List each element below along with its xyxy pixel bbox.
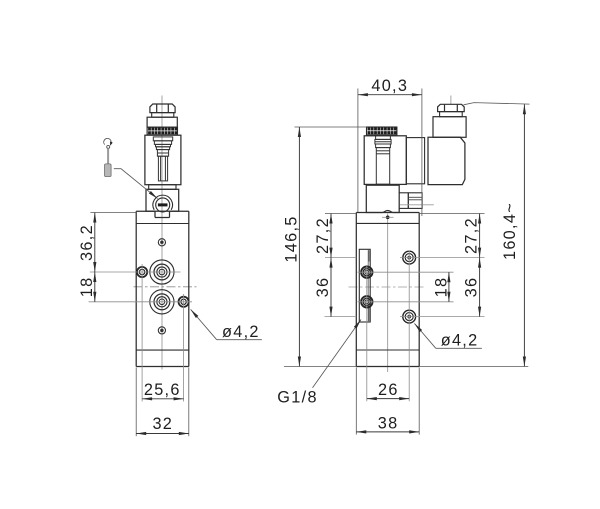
- svg-text:36: 36: [463, 277, 481, 298]
- valve flange top edge with notch: [136, 211, 189, 217]
- override housing side view: [366, 185, 399, 212]
- dashed horizontal centerline right view: [349, 286, 427, 288]
- svg-text:36,2: 36,2: [78, 224, 96, 261]
- pilot cartridge body: [408, 193, 422, 209]
- svg-text:25,6: 25,6: [144, 381, 181, 399]
- dimension 18: [94, 272, 96, 302]
- dimension 40,3: [358, 94, 422, 96]
- dimension 27,2 left: [330, 214, 332, 258]
- centerline vertical right view: [387, 214, 389, 373]
- override screw outer circle (top arc): [153, 195, 173, 210]
- extension lines for 38: [355, 368, 357, 435]
- knurled ring side view: [367, 127, 397, 135]
- top pilot hole: [158, 239, 165, 246]
- dimension 38: [356, 431, 419, 433]
- dimension 40,3 extension lines: [357, 89, 359, 213]
- leader from screwdriver to override screw: [114, 169, 158, 199]
- top extension line row for 27,2 dims: [325, 213, 356, 215]
- sub-base top line right view: [356, 349, 419, 351]
- svg-text:40,3: 40,3: [371, 77, 408, 95]
- solenoid stem side view: [375, 135, 391, 184]
- extension lines for 26: [366, 265, 368, 401]
- G1/8 threaded boss: [359, 249, 370, 322]
- armature stepped stack: [153, 137, 172, 181]
- dimension 25,6: [142, 398, 184, 400]
- adapter plate between solenoid and override housing: [149, 185, 176, 190]
- extension line top of knurl for 146,5: [295, 126, 367, 128]
- pilot cartridge neck: [399, 193, 408, 209]
- override screw inner circle: [156, 198, 170, 212]
- svg-text:160,4~: 160,4~: [501, 202, 519, 260]
- leader for hole dia 4,2 left view: [191, 309, 217, 339]
- coil adapter block: [406, 138, 424, 184]
- screwdriver icon: pivot circle: [107, 145, 110, 148]
- valve body outline right view: [356, 213, 419, 367]
- screwdriver icon: shaft: [107, 148, 109, 164]
- coil body side view: [364, 136, 406, 185]
- svg-text:18: 18: [432, 277, 450, 298]
- stem neck under hex nut: [152, 113, 174, 118]
- solenoid body left view: [145, 135, 181, 185]
- screwdriver icon: rotation arc: [104, 138, 111, 144]
- body top line under flange: [136, 223, 189, 225]
- extension line top (36,2): [90, 212, 136, 214]
- bottom pilot hole: [158, 327, 165, 334]
- svg-text:38: 38: [378, 415, 399, 433]
- svg-text:146,5: 146,5: [282, 215, 300, 262]
- extension lines for 25,6 (through small holes): [141, 264, 143, 402]
- dimension 36 left: [330, 258, 332, 317]
- svg-text:ø4,2: ø4,2: [441, 332, 479, 350]
- flange top edge right view with bump: [356, 211, 419, 213]
- dimension 27,2 right: [479, 214, 481, 258]
- screwdriver icon: handle: [105, 164, 112, 177]
- small mounting hole upper-left: [137, 267, 147, 277]
- cartridge centerline: [400, 204, 434, 206]
- centerline stub above cable gland: [450, 96, 452, 105]
- svg-text:26: 26: [378, 381, 399, 399]
- left port circles side view lower: [361, 296, 372, 307]
- svg-text:36: 36: [314, 277, 332, 298]
- shared bottom extension line: [284, 366, 356, 368]
- right column hole upper: [403, 251, 416, 264]
- upper port (concentric): [150, 260, 174, 284]
- dimension 160,4~: [523, 104, 525, 366]
- collar washer: [147, 117, 177, 127]
- extension/cross line at lower port row: [89, 301, 192, 303]
- hex nut on manual override stem: [150, 104, 175, 113]
- knurled ring: [147, 127, 177, 135]
- dimension 18 right view: [448, 272, 450, 302]
- lower port (concentric): [150, 290, 174, 314]
- svg-text:27,2: 27,2: [463, 217, 481, 254]
- left port circles side view upper: [361, 267, 372, 278]
- centerline vertical left view: [161, 96, 163, 370]
- small mounting hole lower-right: [179, 297, 189, 307]
- cable gland hex nut: [438, 104, 465, 111]
- svg-text:G1/8: G1/8: [277, 389, 318, 407]
- svg-text:32: 32: [152, 415, 173, 433]
- extension/cross line at upper port row: [90, 271, 181, 273]
- DIN connector upper block: [433, 117, 466, 138]
- extension row at upper right hole: [325, 257, 356, 259]
- DIN connector main block: [428, 137, 465, 184]
- svg-text:ø4,2: ø4,2: [222, 323, 260, 341]
- body top line right view: [356, 222, 419, 224]
- dimension 32: [136, 433, 189, 435]
- dimension 36,2: [94, 213, 96, 273]
- dimension 146,5: [298, 127, 300, 367]
- extension rows at left hole columns (18): [358, 271, 454, 273]
- manual override housing: [146, 189, 179, 211]
- right column hole lower: [403, 310, 416, 323]
- extension row at lower right hole: [325, 316, 357, 318]
- dimension 26: [367, 398, 409, 400]
- center dot on flange: [386, 216, 390, 220]
- override screw slot: [158, 203, 168, 206]
- svg-text:18: 18: [78, 277, 96, 298]
- sub-base top line: [136, 349, 189, 351]
- svg-text:27,2: 27,2: [314, 217, 332, 254]
- dimension 36 right: [479, 258, 481, 317]
- leader hole dia 4,2 right view: [414, 323, 435, 348]
- valve body outline left view: [136, 211, 189, 366]
- thread hatch marks on boss: [368, 250, 371, 321]
- diagonal extension from gland to 160,4: [464, 103, 530, 105]
- leader G1/8: [313, 320, 362, 388]
- extension lines for 32: [135, 368, 137, 437]
- dashed horizontal centerline left view: [134, 286, 197, 288]
- cable gland collar: [440, 112, 463, 117]
